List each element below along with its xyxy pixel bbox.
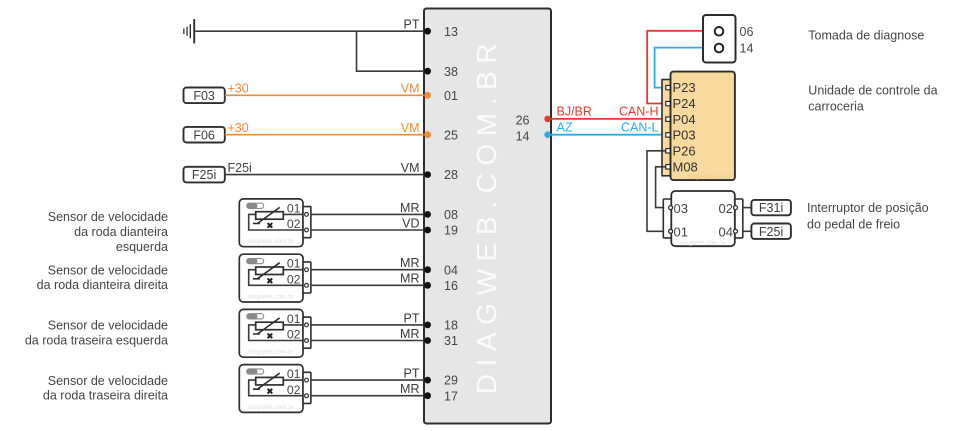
sensor B4 description (43, 374, 168, 403)
wire: M08 to brake switch pin 03 (656, 167, 666, 208)
svg-text:25: 25 (444, 128, 458, 142)
pin P23 (666, 80, 696, 95)
wire: sensor B2 pin 02 to ECU (311, 284, 424, 286)
svg-text:MR: MR (400, 256, 419, 270)
pin 14 (CAN-L, blue dot) (516, 130, 551, 144)
svg-text:13: 13 (444, 25, 458, 39)
pin 06 label (740, 25, 754, 39)
label CAN-L (621, 120, 659, 134)
svg-text:da roda dianteira direita: da roda dianteira direita (37, 278, 168, 292)
pin 16 (left, dot + number + wire label MR) (400, 272, 458, 293)
fuse F03 (184, 88, 225, 104)
svg-text:esquerda: esquerda (116, 240, 168, 254)
svg-text:14: 14 (740, 42, 754, 56)
svg-text:01: 01 (287, 312, 301, 326)
wire: CAN-H (BJ/BR) pin 26 to P04 (551, 118, 666, 120)
pin 04 (left, dot + number + wire label MR) (400, 256, 458, 277)
wire: branch to pin 38 (357, 31, 425, 71)
svg-text:+30: +30 (228, 121, 249, 135)
pin 18 (left, dot + number + wire label PT) (404, 311, 458, 332)
pin P04 (666, 112, 696, 127)
diagnostic connector (Tomada de diagnose) (703, 15, 736, 63)
svg-text:diagweb.com.br: diagweb.com.br (248, 238, 295, 245)
pin 28 (left, dot + number + wire label VM) (401, 161, 458, 182)
svg-text:PT: PT (404, 311, 420, 325)
wire: CAN-H branch P24 to diagnose pin 06 (647, 31, 703, 119)
wire: F03 +30 (VM) to pin 01 (225, 94, 424, 96)
svg-text:P04: P04 (673, 112, 696, 127)
svg-text:carroceria: carroceria (808, 99, 864, 113)
svg-text:06: 06 (740, 25, 754, 39)
wire: sensor B1 pin 02 to ECU (311, 229, 424, 231)
watermark (module) (687, 173, 734, 180)
svg-text:F25i: F25i (228, 161, 252, 175)
svg-text:MR: MR (400, 327, 419, 341)
wire: sensor B4 pin 02 to ECU (311, 395, 424, 397)
pin 29 (left, dot + number + wire label PT) (404, 367, 458, 388)
svg-text:diagweb.com.br: diagweb.com.br (248, 349, 295, 356)
pin 19 (left, dot + number + wire label VD) (402, 216, 458, 237)
svg-text:PT: PT (404, 18, 420, 32)
label AZ (557, 120, 573, 134)
svg-text:31: 31 (444, 334, 458, 348)
svg-text:28: 28 (444, 168, 458, 182)
brake pedal position switch (Interruptor) (663, 191, 743, 246)
pin 31 (left, dot + number + wire label MR) (400, 327, 458, 348)
svg-text:diagweb.com.br: diagweb.com.br (248, 294, 295, 301)
svg-text:19: 19 (444, 224, 458, 238)
svg-text:F03: F03 (193, 89, 215, 103)
svg-text:29: 29 (444, 374, 458, 388)
wire: CAN-L branch P23 to diagnose pin 14 (655, 48, 703, 88)
svg-text:MR: MR (400, 382, 419, 396)
svg-text:BJ/BR: BJ/BR (557, 104, 592, 118)
svg-text:F31i: F31i (759, 201, 783, 215)
pin P03 (666, 128, 696, 143)
sensor B2 description (37, 263, 168, 292)
svg-text:CAN-L: CAN-L (621, 120, 659, 134)
svg-text:04: 04 (444, 263, 458, 277)
ABS control unit block (424, 9, 551, 424)
svg-text:diagweb.com.br: diagweb.com.br (248, 404, 295, 411)
pin 13 (left, dot + number + wire label PT) (404, 18, 458, 39)
svg-text:02: 02 (287, 383, 301, 397)
fuse F31i (751, 200, 791, 215)
wire: sensor B3 pin 01 to ECU (311, 324, 424, 326)
svg-text:diagweb.com.br: diagweb.com.br (687, 173, 734, 180)
svg-text:01: 01 (287, 367, 301, 381)
svg-text:CAN-H: CAN-H (619, 104, 659, 118)
wheel speed sensor B2 (front-right) (239, 254, 311, 302)
svg-text:17: 17 (444, 389, 458, 403)
svg-text:14: 14 (516, 130, 530, 144)
pin P24 (666, 96, 696, 111)
svg-text:AZ: AZ (557, 120, 573, 134)
svg-text:F06: F06 (193, 128, 215, 142)
pin 14 label (740, 42, 754, 56)
wheel speed sensor B3 (rear-left) (239, 309, 311, 357)
svg-text:Sensor de velocidade: Sensor de velocidade (48, 319, 168, 333)
pin 01 (left, dot + number + wire label VM) (401, 82, 458, 103)
svg-text:PT: PT (404, 367, 420, 381)
svg-text:Interruptor de posição: Interruptor de posição (807, 201, 929, 215)
svg-text:02: 02 (287, 273, 301, 287)
svg-text:16: 16 (444, 279, 458, 293)
svg-text:da roda traseira esquerda: da roda traseira esquerda (25, 333, 168, 347)
description: Tomada de diagnose (808, 29, 924, 43)
fuse F06 (184, 127, 225, 143)
pin 08 (left, dot + number + wire label MR) (400, 201, 458, 222)
fuse F25i (switch side) (751, 224, 791, 239)
svg-text:da roda dianteira: da roda dianteira (74, 225, 168, 239)
svg-text:diagweb.com.br: diagweb.com.br (680, 239, 727, 246)
pin 25 (left, dot + number + wire label VM) (401, 121, 458, 142)
svg-text:do pedal de freio: do pedal de freio (807, 217, 900, 231)
body control module (Unidade de controle da carroceria) (662, 72, 735, 181)
svg-text:VM: VM (401, 82, 420, 96)
svg-text:P03: P03 (673, 128, 696, 143)
pin 17 (left, dot + number + wire label MR) (400, 382, 458, 403)
ground (chassis) symbol (183, 19, 195, 43)
wire: P26 to brake switch pin 01 (647, 151, 666, 232)
label CAN-H (619, 104, 659, 118)
pin P26 (666, 143, 696, 158)
wheel speed sensor B1 (front-left) (239, 199, 311, 247)
svg-text:02: 02 (719, 201, 733, 216)
wire: F06 +30 (VM) to pin 25 (225, 134, 424, 136)
description: Interruptor de posição do pedal de freio (807, 201, 929, 232)
label +30 (F03 wire) (228, 82, 249, 96)
svg-text:Tomada de diagnose: Tomada de diagnose (808, 29, 924, 43)
svg-text:M08: M08 (673, 159, 698, 174)
svg-text:18: 18 (444, 319, 458, 333)
svg-text:01: 01 (287, 201, 301, 215)
pin 26 (CAN-H, red dot) (516, 114, 551, 128)
svg-text:P26: P26 (673, 143, 696, 158)
svg-text:da roda traseira direita: da roda traseira direita (43, 389, 168, 403)
fuse F25i (184, 167, 225, 183)
svg-text:MR: MR (400, 201, 419, 215)
svg-text:02: 02 (287, 328, 301, 342)
wire: pin 02 to F31i (743, 207, 752, 209)
svg-text:Sensor de velocidade: Sensor de velocidade (48, 374, 168, 388)
sensor B3 description (25, 319, 168, 348)
label +30 (F06 wire) (228, 121, 249, 135)
label BJ/BR (557, 104, 592, 118)
svg-text:VD: VD (402, 216, 419, 230)
svg-text:Sensor de velocidade: Sensor de velocidade (48, 210, 168, 224)
description: Unidade de controle da carroceria (808, 83, 937, 113)
svg-text:P24: P24 (673, 96, 696, 111)
svg-text:Sensor de velocidade: Sensor de velocidade (48, 263, 168, 277)
wire: sensor B2 pin 01 to ECU (311, 269, 424, 271)
wheel speed sensor B4 (rear-right) (239, 365, 311, 413)
svg-text:VM: VM (401, 121, 420, 135)
svg-text:03: 03 (674, 201, 688, 216)
svg-text:VM: VM (401, 161, 420, 175)
sensor B1 description (48, 210, 168, 254)
svg-text:02: 02 (287, 217, 301, 231)
svg-text:01: 01 (674, 225, 688, 240)
label F25i (wire) (228, 161, 252, 175)
svg-text:08: 08 (444, 208, 458, 222)
wire: ground to pin 13 (PT) (195, 30, 424, 32)
pin 38 (left, dot + number) (424, 65, 458, 79)
svg-text:01: 01 (444, 89, 458, 103)
wire: pin 04 to F25i (743, 230, 752, 232)
svg-text:F25i: F25i (192, 168, 216, 182)
svg-text:38: 38 (444, 65, 458, 79)
svg-text:+30: +30 (228, 82, 249, 96)
wire: sensor B3 pin 02 to ECU (311, 340, 424, 342)
wire: sensor B4 pin 01 to ECU (311, 379, 424, 381)
svg-text:04: 04 (719, 225, 733, 240)
svg-text:01: 01 (287, 257, 301, 271)
svg-text:P23: P23 (673, 80, 696, 95)
svg-text:DIAGWEB.COM.BR: DIAGWEB.COM.BR (471, 36, 502, 394)
wire: F25i (VM) to pin 28 (225, 174, 424, 176)
svg-text:MR: MR (400, 272, 419, 286)
svg-text:Unidade de controle da: Unidade de controle da (808, 83, 937, 97)
wire: sensor B1 pin 01 to ECU (311, 213, 424, 215)
svg-text:26: 26 (516, 114, 530, 128)
pin M08 (666, 159, 698, 174)
svg-text:F25i: F25i (759, 225, 783, 239)
wire: CAN-L (AZ) pin 14 to P03 (551, 134, 666, 136)
